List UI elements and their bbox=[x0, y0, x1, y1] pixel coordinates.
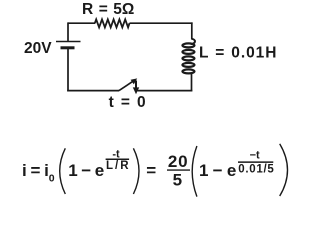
svg-text:=: = bbox=[146, 161, 156, 180]
svg-text:0: 0 bbox=[49, 173, 55, 185]
inductor L coil loop 4 bbox=[182, 63, 194, 67]
wire: right vertical lower (inductor to bottom corner) bbox=[191, 73, 193, 92]
equation: subscript 0 bbox=[49, 173, 55, 185]
label 20V bbox=[24, 40, 52, 57]
equation: fraction bar 20/5 bbox=[167, 169, 190, 171]
equation: big open paren left bbox=[60, 148, 66, 194]
equation: fraction numerator 20 bbox=[168, 152, 189, 171]
svg-text:1 − e: 1 − e bbox=[68, 161, 104, 180]
svg-text:t = 0: t = 0 bbox=[109, 94, 146, 111]
battery V1: long positive plate bbox=[56, 41, 81, 43]
equation: big open paren right bbox=[192, 146, 197, 197]
equation: 1 − e (right) bbox=[199, 161, 236, 180]
equation: exponent 0.01/5 bbox=[238, 164, 274, 176]
switch lever arrowhead bbox=[131, 78, 138, 84]
equation: i = i bbox=[22, 161, 49, 180]
equation: exponent −t (right) bbox=[250, 150, 260, 162]
svg-text:−t: −t bbox=[250, 150, 260, 162]
equation: equals sign bbox=[146, 161, 156, 180]
equation: exponent fraction bar (right) bbox=[238, 161, 273, 163]
inductor L top hook bbox=[191, 39, 195, 44]
equation: fraction denominator 5 bbox=[173, 170, 182, 189]
svg-text:20V: 20V bbox=[24, 40, 52, 57]
wire: bottom-right horizontal (switch to corner) bbox=[138, 90, 193, 92]
switch closing arrowhead (down) bbox=[133, 87, 139, 94]
svg-text:L/R: L/R bbox=[106, 160, 131, 172]
label t = 0 bbox=[109, 94, 146, 111]
inductor L coil loop 5 bbox=[182, 69, 194, 73]
switch closing arrow shaft bbox=[135, 81, 137, 89]
label L = 0.01H bbox=[199, 44, 277, 61]
inductor L coil loop 3 bbox=[182, 56, 194, 60]
wire: bottom-left horizontal (corner to switch) bbox=[67, 90, 119, 92]
switch S lever arm bbox=[119, 81, 134, 91]
resistor R zigzag bbox=[95, 19, 130, 27]
equation: 1 − e bbox=[68, 161, 104, 180]
equation: exponent L/R bbox=[106, 160, 131, 172]
svg-text:R = 5Ω: R = 5Ω bbox=[82, 1, 134, 18]
equation: big close paren right bbox=[280, 144, 288, 196]
svg-text:i = i: i = i bbox=[22, 161, 49, 180]
inductor L coil loop 2 bbox=[182, 50, 194, 54]
wire: top-right horizontal (resistor to inductor) bbox=[130, 22, 193, 24]
inductor L coil loop 1 bbox=[182, 43, 194, 47]
svg-text:1 − e: 1 − e bbox=[199, 161, 236, 180]
svg-text:L = 0.01H: L = 0.01H bbox=[199, 44, 277, 61]
equation: exponent fraction bar (left) bbox=[106, 158, 130, 160]
equation: big close paren left bbox=[133, 148, 139, 194]
equation: exponent −t (left) bbox=[112, 148, 120, 160]
wire: left vertical upper (top corner to battery) bbox=[67, 22, 69, 41]
wire: top-left horizontal (battery top to resistor) bbox=[68, 22, 95, 24]
svg-text:0.01/5: 0.01/5 bbox=[238, 164, 274, 176]
label R = 5Ω bbox=[82, 1, 134, 18]
wire: right vertical upper (top corner to inductor) bbox=[191, 22, 193, 39]
wire: left vertical lower (battery to bottom corner) bbox=[67, 48, 69, 92]
svg-text:20: 20 bbox=[168, 152, 189, 171]
battery V1: short negative plate bbox=[61, 46, 75, 49]
svg-text:5: 5 bbox=[173, 170, 182, 189]
